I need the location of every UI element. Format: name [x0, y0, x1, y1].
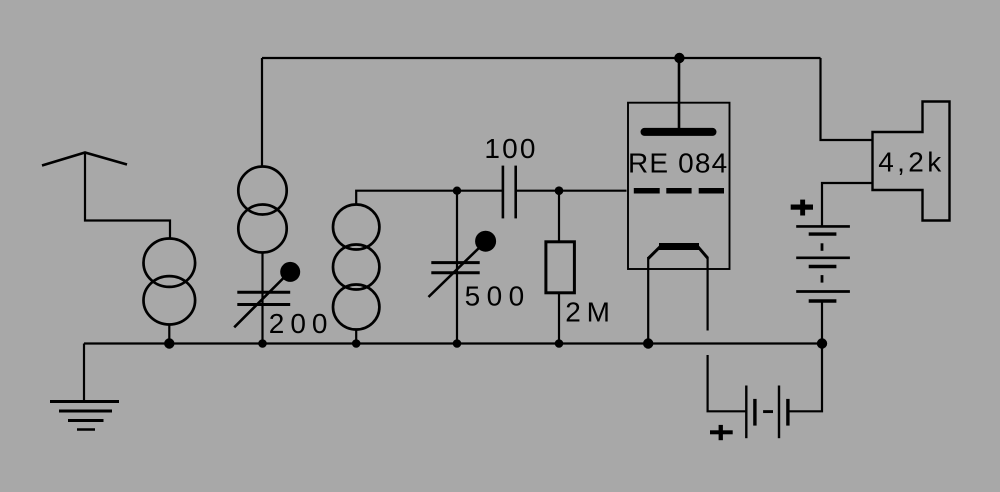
wire filament right leg upper: [706, 257, 708, 331]
svg-text:500: 500: [465, 281, 531, 312]
node R/bus: [555, 339, 564, 348]
tube anode plate: [645, 128, 713, 136]
node bus right end: [817, 338, 827, 348]
B1 plus sign: [710, 425, 733, 440]
label 4,2k: [878, 147, 944, 178]
node anode junction: [674, 53, 684, 63]
wire C100 to tube grid: [516, 190, 627, 192]
node L2/bus: [258, 339, 267, 348]
label 200: [269, 308, 334, 339]
tube U1 envelope box: [628, 103, 730, 269]
wire L3 top to grid line: [356, 191, 503, 205]
wire L2 down through C200 to bus: [261, 253, 263, 344]
battery B1 filament battery plates: [746, 386, 788, 439]
svg-text:200: 200: [269, 308, 334, 339]
svg-text:2M: 2M: [565, 297, 616, 328]
wire R bottom: [558, 293, 560, 344]
node C500/bus: [453, 339, 462, 348]
wire B1 to bus riser: [788, 344, 822, 412]
svg-text:4,2k: 4,2k: [878, 147, 944, 178]
wire speaker bottom to B2: [822, 183, 873, 226]
C200 arrow: [234, 276, 286, 328]
B2 plus sign: [791, 200, 813, 216]
label 2M: [565, 297, 616, 328]
label 100: [484, 133, 537, 164]
variable capacitor C200 plates: [237, 292, 290, 304]
wire filament left leg: [647, 257, 649, 344]
label RE 084: [628, 148, 728, 179]
node C500 top: [453, 187, 461, 195]
tube filament cathode: [648, 247, 707, 259]
wire R top: [558, 191, 560, 242]
coil L3 tickler coil: [333, 205, 379, 330]
node grid/R junction: [555, 186, 564, 195]
wire top anode rail: [262, 57, 821, 59]
wire filament right leg lower: [708, 355, 747, 411]
coil L1 antenna coil: [144, 239, 196, 325]
wire L2 up to top rail: [261, 58, 263, 167]
node L1/bus: [164, 338, 174, 348]
battery B2 anode battery: [796, 226, 850, 343]
C200 knob dot: [280, 262, 300, 282]
tube grid dashes: [634, 188, 724, 194]
svg-text:100: 100: [484, 133, 537, 164]
node filament/bus: [643, 338, 653, 348]
coil L2 grid coil: [238, 167, 286, 253]
wire L1 to bus: [168, 325, 170, 344]
C500 knob dot: [475, 231, 496, 252]
speaker LS 4.2k: [873, 102, 950, 221]
wire L3 bottom to bus: [355, 330, 357, 344]
antenna: [42, 153, 127, 166]
C500 arrow: [429, 246, 482, 298]
wire C500 branch: [456, 191, 458, 344]
svg-text:RE 084: RE 084: [628, 148, 728, 179]
label 500: [465, 281, 531, 312]
capacitor C100 plates: [503, 166, 516, 219]
ground: [50, 344, 119, 430]
resistor R1 2M: [546, 242, 575, 293]
ground bus wire: [84, 342, 822, 344]
node L3/bus: [352, 339, 361, 348]
wire anode lead: [678, 58, 681, 128]
B1 minus sign: [763, 410, 773, 413]
wire antenna lead-in: [85, 153, 170, 240]
wire top rail down to speaker: [821, 58, 873, 140]
variable capacitor C500 plates: [431, 263, 479, 273]
